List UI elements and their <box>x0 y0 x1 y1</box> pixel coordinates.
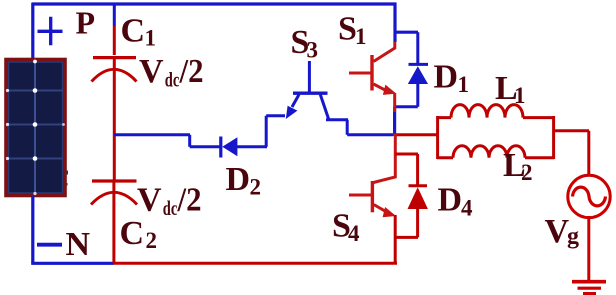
wire left drop from rail to PV panel <box>31 3 34 58</box>
capacitor C2 <box>91 181 137 205</box>
transistor S4 (IGBT, red) <box>349 134 396 217</box>
wire D2 to S3 emitter <box>237 116 285 147</box>
svg-text:4: 4 <box>348 221 360 246</box>
transistor S1 (IGBT, red) <box>349 42 396 113</box>
AC source Vg <box>568 175 610 217</box>
transistor S4 label <box>332 208 360 247</box>
diode D4 label <box>438 182 474 221</box>
diode D1 <box>408 64 428 84</box>
svg-text:g: g <box>567 224 579 250</box>
capacitor C2 bottom lead <box>112 181 115 263</box>
svg-text:/2: /2 <box>179 53 204 90</box>
svg-text:N: N <box>66 226 91 263</box>
svg-text:2: 2 <box>146 228 158 253</box>
node P plus sign <box>38 17 63 46</box>
capacitor C2 label <box>120 215 158 253</box>
inductor L2 <box>437 146 554 158</box>
svg-text:D: D <box>434 59 459 96</box>
svg-text:D: D <box>226 161 251 198</box>
wire L network to Vg <box>553 131 589 176</box>
svg-text:1: 1 <box>145 26 157 51</box>
capacitor C1 <box>92 58 137 82</box>
wire D1 top lead <box>416 32 419 63</box>
diode D4 <box>408 186 428 209</box>
inductor L2 label <box>503 147 533 185</box>
wire S4 emitter to bottom rail <box>394 215 397 263</box>
svg-text:2: 2 <box>250 175 262 200</box>
wire junction to L network (red) <box>394 133 438 136</box>
wire D4 bottom lead <box>396 209 418 237</box>
svg-text:C: C <box>120 215 145 252</box>
svg-text:P: P <box>76 5 96 41</box>
label Vdc/2 upper <box>139 53 204 92</box>
ground <box>572 282 606 294</box>
wire Vg to ground <box>587 216 590 281</box>
svg-text:dc: dc <box>163 196 178 220</box>
wire S4 collector to D4 <box>395 153 418 156</box>
svg-text:dc: dc <box>165 68 180 92</box>
wire D4 top lead <box>416 154 419 186</box>
svg-text:1: 1 <box>458 72 470 97</box>
node PV terminal specks <box>65 171 68 186</box>
wire center capacitor link C1 to C2 <box>113 57 116 181</box>
node N minus sign <box>37 243 62 247</box>
diode D2 label <box>226 161 262 200</box>
svg-text:4: 4 <box>461 196 473 221</box>
svg-text:2: 2 <box>521 160 533 185</box>
svg-text:D: D <box>438 182 463 219</box>
PV panel PV <box>6 60 65 196</box>
AC source Vg label <box>545 213 580 250</box>
transistor S1 label <box>338 11 367 50</box>
inductor L1 <box>437 105 554 118</box>
wire bottom rail red segment <box>114 262 397 265</box>
wire jog to D1 branch <box>394 31 419 34</box>
inductor L1 label <box>495 70 526 108</box>
svg-text:C: C <box>121 13 146 50</box>
capacitor C1 label <box>121 13 157 51</box>
transistor S3 label <box>291 24 319 63</box>
svg-text:3: 3 <box>307 38 319 63</box>
label Vdc/2 lower <box>137 182 202 221</box>
wire top DC rail (blue) <box>32 2 397 5</box>
transistor S3 (IGBT, blue) <box>286 61 329 119</box>
svg-text:1: 1 <box>355 24 367 49</box>
svg-text:V: V <box>139 53 164 90</box>
wire S3 collector to center junction <box>326 120 393 135</box>
svg-text:1: 1 <box>514 83 526 108</box>
svg-text:V: V <box>137 182 162 219</box>
svg-text:/2: /2 <box>177 182 202 219</box>
node N label <box>66 226 91 263</box>
wire midpoint to D2 (blue) <box>114 135 220 147</box>
wire top-right corner drop (blue) <box>393 3 396 42</box>
wire PV panel bottom lead <box>31 196 34 263</box>
inductor network right vertical <box>552 116 555 159</box>
node center junction <box>393 112 396 136</box>
capacitor C1 top lead <box>113 4 116 56</box>
diode D2 <box>221 137 238 158</box>
wire D1 bottom lead <box>394 84 418 133</box>
svg-text:V: V <box>545 213 570 250</box>
diode D1 label <box>434 59 470 98</box>
wire bottom rail blue segment <box>31 262 114 265</box>
inductor network left vertical <box>436 116 439 159</box>
node P label <box>76 5 96 41</box>
